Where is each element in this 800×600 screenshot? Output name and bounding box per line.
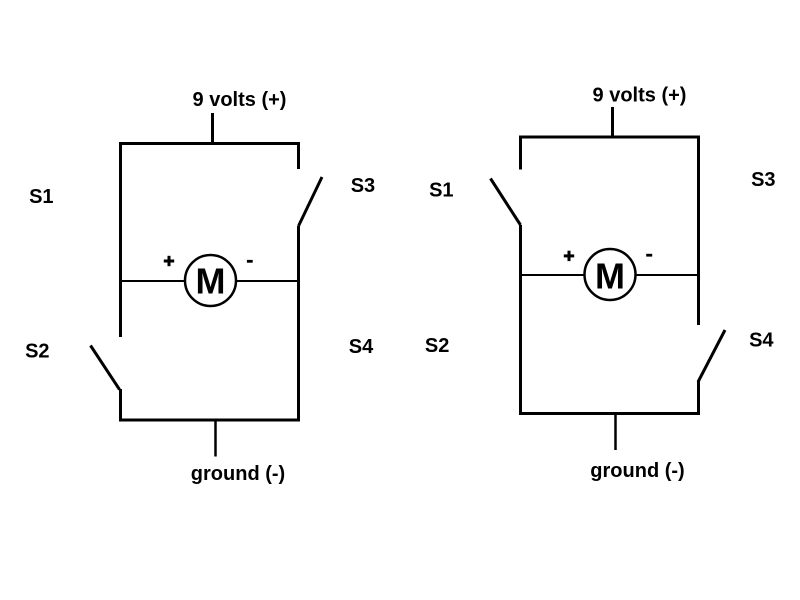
switch S2 (closed) right circuit lower-left wire <box>519 225 522 415</box>
motor M (right circuit) circle <box>585 249 636 300</box>
switch S3 (closed) right circuit upper-right wire <box>697 136 700 326</box>
wire: left circuit upper-right segment above S3 <box>297 142 300 169</box>
svg-text:M: M <box>196 261 226 302</box>
svg-text:S3: S3 <box>751 169 775 191</box>
switch S3 (open) lever, left circuit <box>299 177 323 226</box>
wire: right circuit lower-right segment below S4 <box>697 381 700 415</box>
svg-text:S3: S3 <box>351 175 375 197</box>
svg-text:S4: S4 <box>349 336 374 358</box>
svg-text:S2: S2 <box>25 341 49 363</box>
switch S1 (open) lever, right circuit <box>491 179 521 226</box>
wire: left circuit ground stub <box>214 419 217 457</box>
wire: right circuit motor feed line <box>521 274 699 276</box>
svg-text:S1: S1 <box>29 186 53 208</box>
switch S4 (open) lever, right circuit <box>698 330 725 382</box>
wire: right circuit upper-left segment above S1 <box>519 136 522 170</box>
svg-text:S4: S4 <box>749 330 774 352</box>
polarity + (left circuit) <box>164 256 174 266</box>
svg-text:9 volts (+): 9 volts (+) <box>193 89 287 111</box>
switch S4 (closed) left circuit lower-right wire <box>297 226 300 422</box>
polarity - (left circuit) <box>247 260 253 263</box>
switch S2 (open) lever, left circuit <box>91 346 120 390</box>
wire: left circuit lower-left segment below S2 <box>119 389 122 422</box>
svg-text:ground (-): ground (-) <box>191 463 285 485</box>
svg-text:S1: S1 <box>429 180 453 202</box>
svg-text:9 volts (+): 9 volts (+) <box>593 85 687 107</box>
wire: left circuit top rail <box>119 142 300 145</box>
polarity - (right circuit) <box>646 254 652 257</box>
wire: right circuit bottom rail <box>519 412 700 415</box>
wire: left circuit bottom rail <box>119 419 300 422</box>
svg-text:M: M <box>595 256 625 297</box>
svg-text:S2: S2 <box>425 335 449 357</box>
svg-text:ground (-): ground (-) <box>590 460 684 482</box>
wire: right circuit ground stub <box>614 412 617 450</box>
wire: right circuit power stub <box>611 107 614 139</box>
polarity + (right circuit) <box>564 251 574 261</box>
switch S1 (closed) left circuit upper-left wire <box>119 142 122 337</box>
wire: left circuit motor feed line <box>121 280 299 282</box>
wire: left circuit power stub <box>211 113 214 145</box>
wire: right circuit top rail <box>519 136 700 139</box>
motor M (left circuit) circle <box>185 255 236 306</box>
